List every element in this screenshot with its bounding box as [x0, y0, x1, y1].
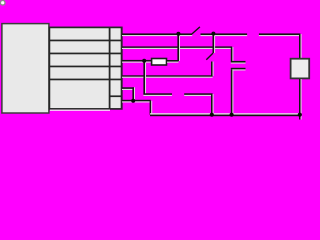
- bus junction dot G: [298, 113, 302, 117]
- wire pin5 horizontal: [122, 87, 134, 90]
- wire riser node B down: [213, 34, 216, 53]
- row divider 2: [49, 53, 122, 55]
- connector block X1 (pin rows body): [49, 27, 121, 110]
- wire mid bus right segment: [184, 93, 212, 96]
- tiny corner glyph: [0, 0, 5, 5]
- node B junction dot: [211, 32, 215, 36]
- wire resistor to riser: [167, 60, 179, 63]
- switch S1 blade: [192, 27, 200, 34]
- wire node D drop to bus: [150, 101, 153, 115]
- wire riser node C down: [143, 61, 146, 94]
- connector block right border: [121, 27, 123, 109]
- capacitor C1 bottom plate: [231, 68, 246, 71]
- resistor R1: [152, 59, 167, 66]
- wire drop top right to load: [299, 34, 302, 59]
- wire pin2 drop to capacitor: [231, 47, 234, 62]
- right column divider: [109, 27, 111, 109]
- switch S2 lower lead: [211, 62, 214, 77]
- wire pin1 right segment: [259, 33, 301, 36]
- wire pin3 to resistor: [122, 60, 152, 63]
- node D junction dot: [131, 99, 135, 103]
- row divider 1: [49, 40, 122, 42]
- wire riser resistor to node A: [177, 34, 180, 61]
- wire pin5 drop: [132, 87, 135, 101]
- node A junction dot: [176, 32, 180, 36]
- row divider 4: [49, 79, 122, 81]
- load block M1: [291, 59, 310, 79]
- wire pin6: [122, 100, 151, 103]
- highlight under block: [50, 110, 110, 111]
- wire mid bus left segment: [143, 93, 172, 96]
- capacitor C1 top plate: [231, 61, 246, 64]
- capacitor lower lead to bus: [231, 69, 234, 115]
- right column sub divider: [109, 95, 122, 97]
- wire pin4: [122, 75, 213, 77]
- bus junction dot F: [230, 113, 234, 117]
- wire pin1 left segment: [122, 33, 192, 36]
- load lower lead: [299, 79, 302, 120]
- wire pin2: [122, 46, 232, 49]
- wire drop to bottom bus at x212: [211, 94, 214, 115]
- relay coil block K1 (large box): [2, 24, 49, 113]
- wire pin1 mid segment: [201, 33, 248, 36]
- bus junction dot E: [210, 113, 214, 117]
- switch S2 blade: [206, 53, 213, 60]
- row divider 3: [49, 66, 122, 68]
- bottom bus wire: [150, 113, 301, 116]
- node C junction dot: [142, 59, 146, 63]
